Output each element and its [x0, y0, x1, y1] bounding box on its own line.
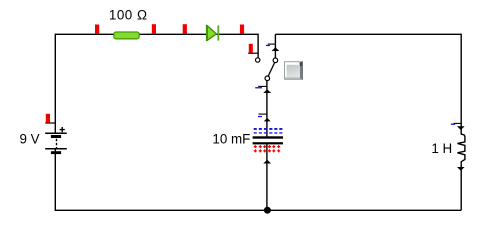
- current marker red bar 2 (top wire): [152, 24, 156, 33]
- battery B1 bottom cell long plate: [45, 148, 67, 150]
- probe tick + arrow (switch right branch): [266, 44, 279, 51]
- wire stub down to switch right throw: [274, 34, 276, 58]
- wire right vertical upper (top corner to inductor): [460, 34, 462, 135]
- capacitor C1 negative charges (blue dashes row 2): [254, 132, 283, 133]
- current marker red bar 5 with shelf (switch left branch): [248, 44, 258, 53]
- capacitor C1 bottom plate: [253, 142, 283, 144]
- wire middle vertical lower (capacitor to bottom junction): [266, 144, 268, 210]
- capacitor C1 top plate: [253, 136, 283, 138]
- battery B1 top cell thick plate: [51, 135, 61, 138]
- probe tick + arrow (below switch common): [255, 86, 271, 93]
- wire stub down to switch left throw: [257, 34, 259, 58]
- wire left vertical lower (battery - down to bottom corner): [55, 149, 461, 211]
- battery B1 dashed link: [56, 139, 58, 149]
- battery B1 top cell long plate: [45, 132, 67, 134]
- switch S1 right throw terminal: [273, 58, 278, 63]
- diode D1: [207, 25, 218, 41]
- switch S1 common terminal: [265, 76, 270, 81]
- wire right vertical lower (inductor to bottom corner): [460, 161, 462, 210]
- resistor R1 100 ohm: [114, 32, 139, 39]
- inductor L1 coil: [458, 134, 465, 162]
- push button icon for switch: [284, 61, 303, 80]
- capacitor C1 negative charges (blue dashes row 1): [254, 128, 283, 130]
- wire left vertical upper (top corner down to battery +): [54, 34, 56, 134]
- probe tick + arrow (above capacitor): [258, 114, 271, 121]
- junction node (bottom middle): [264, 207, 271, 214]
- current marker red bar 4 (top wire): [240, 25, 244, 34]
- current arrow (below inductor, pointing down): [457, 167, 465, 171]
- capacitor C1 positive charges (red plus row 1): [254, 145, 280, 148]
- switch S1 left throw terminal: [256, 58, 260, 62]
- wire top-right horizontal (switch right throw to right corner): [275, 33, 461, 35]
- battery B1 9V: current marker red bar with shelf: [45, 114, 55, 123]
- current marker red bar 3 (top wire): [183, 24, 187, 33]
- battery B1 bottom cell thick plate: [51, 151, 61, 154]
- current marker red bar 1 (top wire): [95, 25, 99, 34]
- svg-text:10 mF: 10 mF: [212, 131, 250, 146]
- probe tick + arrow (above inductor, pointing down): [451, 123, 465, 130]
- battery B1 plus sign: [60, 127, 65, 132]
- svg-text:100 Ω: 100 Ω: [109, 8, 148, 23]
- wire top-left horizontal (battery+ to switch left throw): [55, 33, 258, 35]
- wire middle vertical (switch common to bottom junction): [266, 81, 268, 137]
- current arrow (below capacitor): [263, 160, 271, 164]
- switch S1 lever: [268, 62, 274, 76]
- capacitor C1 positive charges (red plus row 2): [254, 149, 280, 152]
- svg-text:9 V: 9 V: [20, 132, 40, 147]
- svg-text:1 H: 1 H: [431, 141, 452, 156]
